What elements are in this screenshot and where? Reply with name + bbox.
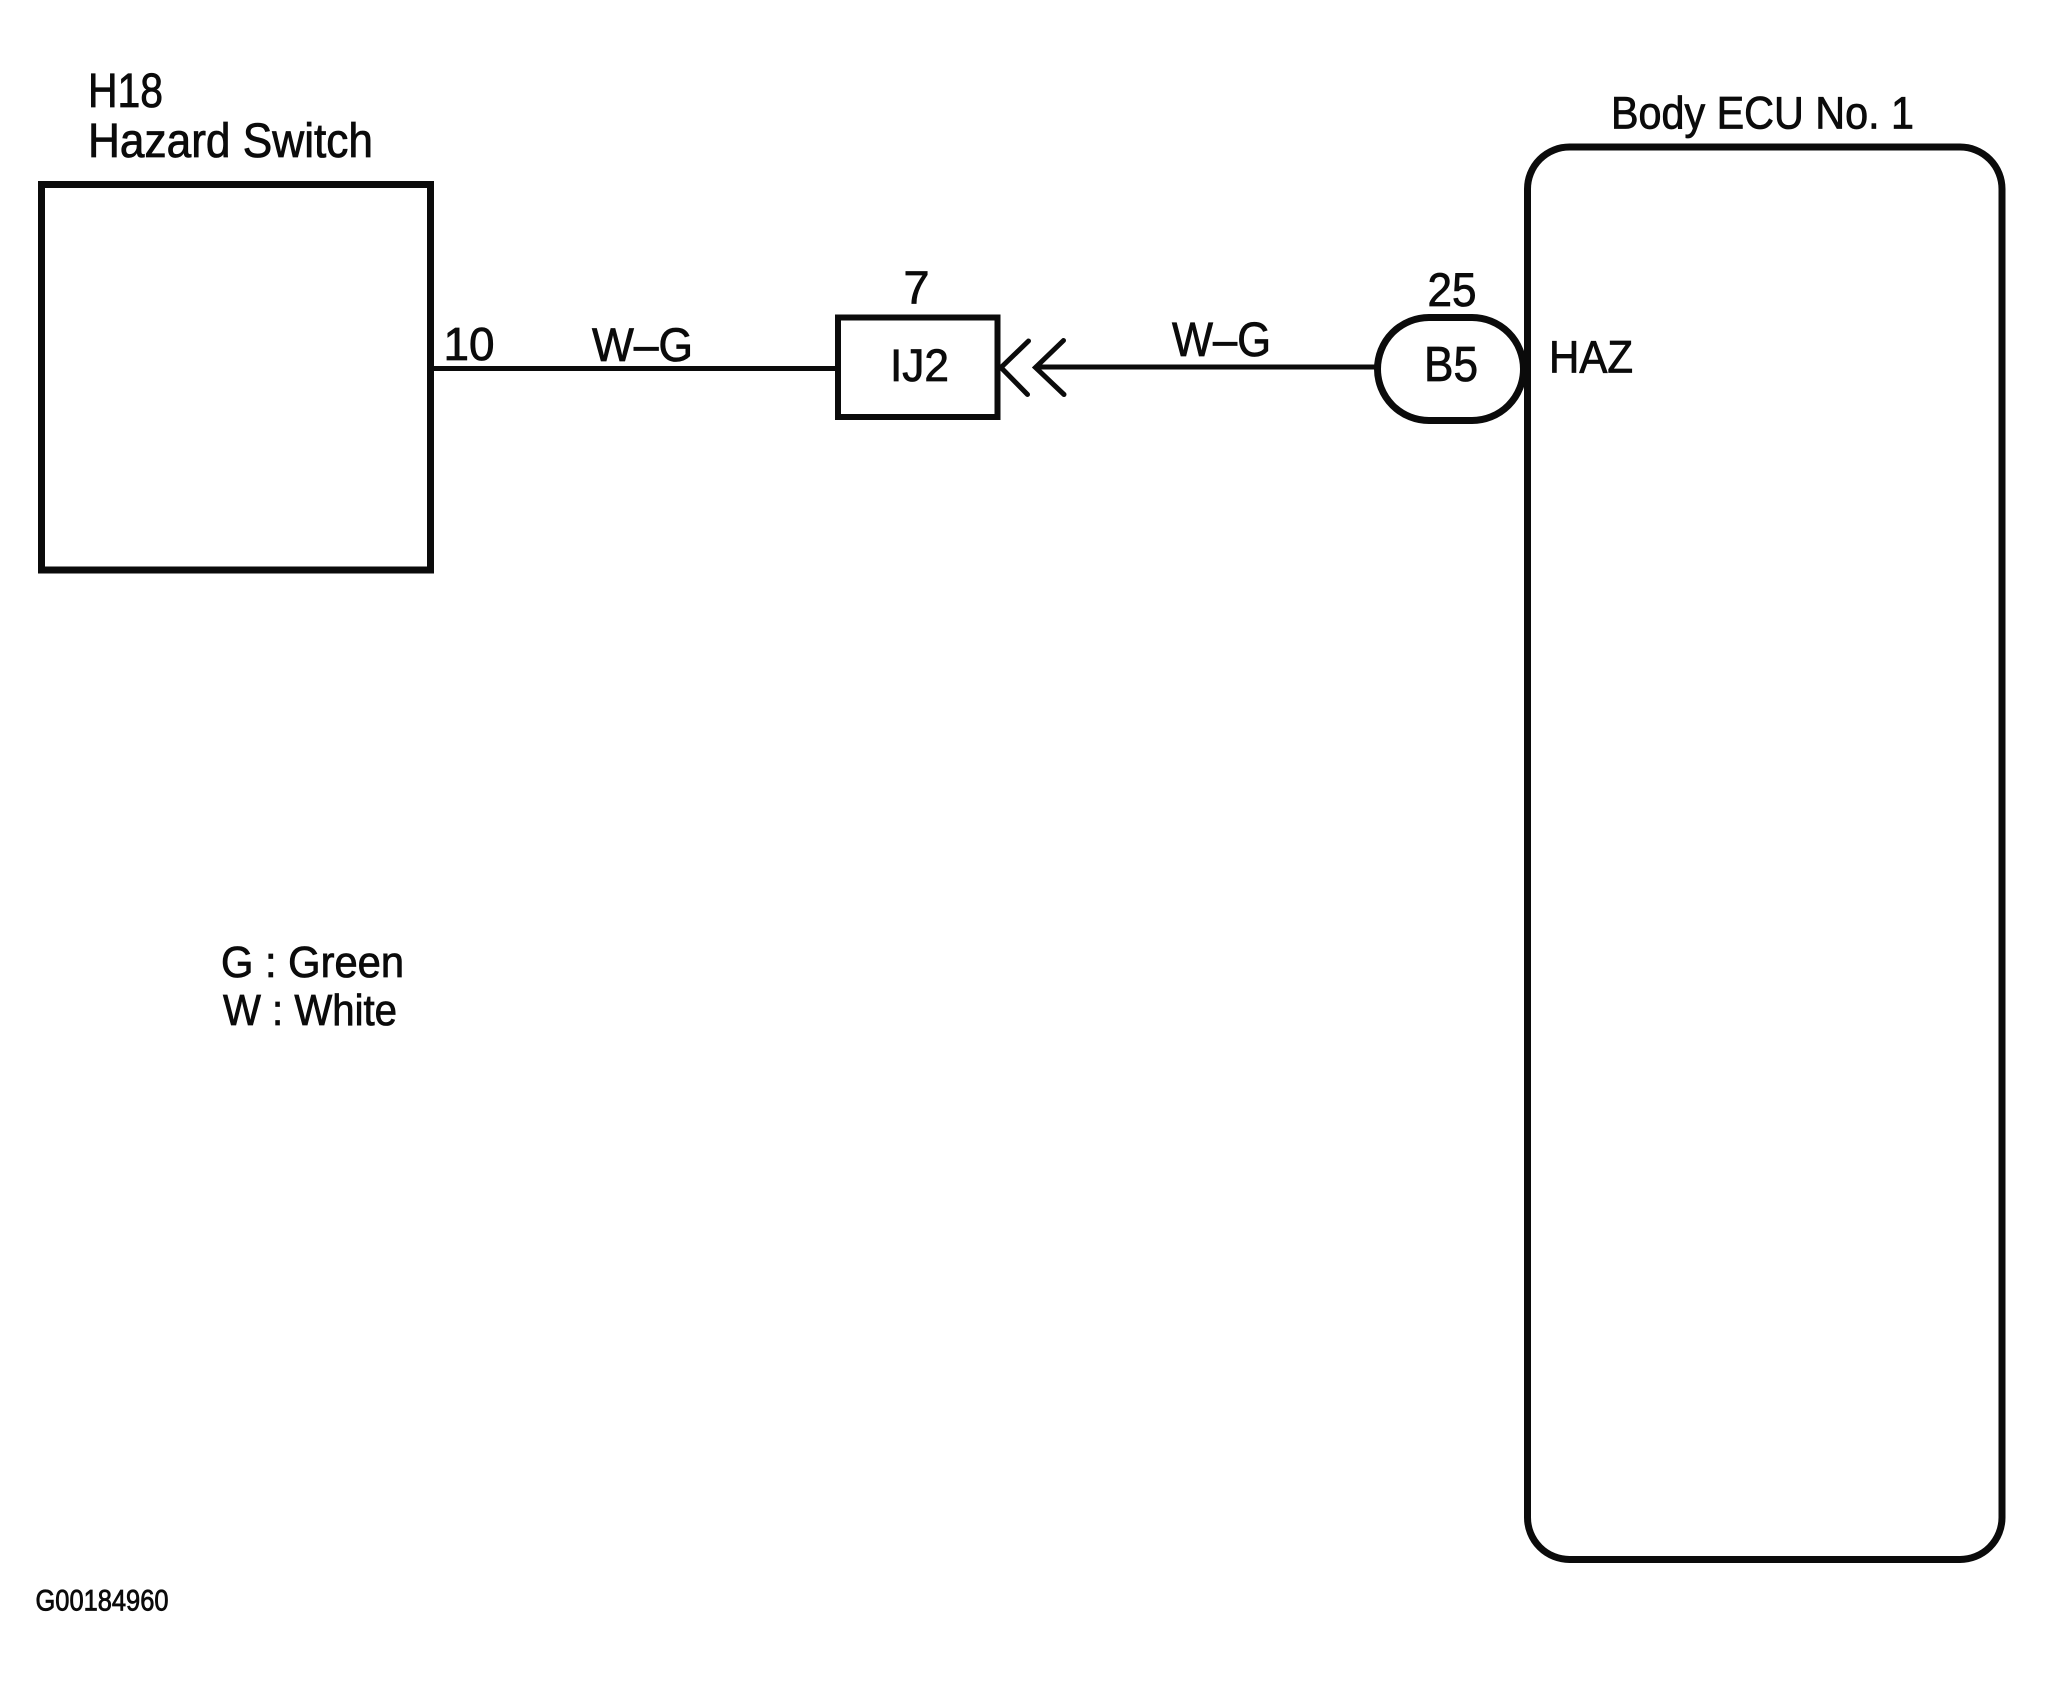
svg-text:Body ECU No. 1: Body ECU No. 1	[1611, 88, 1914, 139]
svg-text:G00184960: G00184960	[36, 1585, 169, 1618]
svg-text:25: 25	[1428, 263, 1477, 316]
svg-text:B5: B5	[1424, 338, 1478, 392]
svg-text:W–G: W–G	[1172, 314, 1271, 367]
svg-text:W : White: W : White	[223, 986, 397, 1035]
svg-text:10: 10	[444, 318, 495, 370]
svg-text:HAZ: HAZ	[1549, 332, 1633, 383]
svg-text:7: 7	[904, 262, 930, 314]
svg-text:H18: H18	[88, 65, 163, 118]
svg-text:W–G: W–G	[592, 318, 693, 371]
svg-text:G : Green: G : Green	[221, 938, 404, 987]
svg-text:IJ2: IJ2	[890, 340, 949, 391]
svg-text:Hazard Switch: Hazard Switch	[88, 115, 373, 168]
